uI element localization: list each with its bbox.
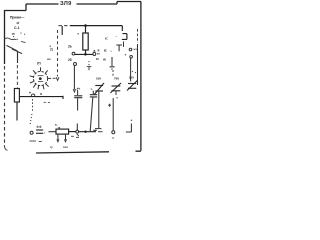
x mark right-mid	[108, 103, 111, 107]
svg-text:т: т	[98, 57, 100, 61]
switch contact 2b	[74, 63, 77, 66]
dashed lead above C2	[112, 70, 114, 76]
tube right pin dash	[53, 77, 56, 79]
stub from top bus	[61, 26, 63, 35]
R3 bottom stub right	[65, 134, 67, 140]
svg-text:гт: гт	[112, 136, 115, 140]
svg-text:ъч: ъч	[133, 47, 137, 51]
antenna arrow stroke 2	[12, 49, 22, 54]
svg-text:сі: сі	[17, 21, 20, 25]
small capacitor node mid	[87, 61, 92, 70]
junction dot on switch wire	[84, 53, 87, 56]
trimmer capacitor C3	[127, 81, 137, 91]
resistor R1	[83, 33, 88, 50]
output contact circle	[112, 131, 115, 134]
tube V1 envelope	[33, 71, 47, 85]
capacitor C5 upper lead	[77, 90, 79, 95]
svg-text:фф: фф	[37, 125, 42, 129]
wire R3 right to contact	[69, 131, 76, 133]
ganged link arrowhead	[56, 77, 59, 80]
trimmer C1 bottom tick	[93, 129, 101, 131]
bottom contact circle	[30, 131, 33, 134]
hook on wire at tap	[31, 94, 34, 96]
labels row lower right	[96, 57, 106, 62]
arrowhead on 2b wire	[73, 89, 75, 92]
antenna arrow dash	[21, 41, 26, 42]
dot left of contacts	[125, 54, 126, 55]
svg-text:о: о	[116, 96, 118, 100]
tube V1 internal electrodes	[38, 76, 44, 82]
svg-text:ю: ю	[103, 58, 106, 62]
switch contact 2v	[93, 53, 96, 56]
bracket component at bus end	[122, 34, 127, 40]
svg-text:тип: тип	[63, 145, 68, 149]
svg-text:100: 100	[96, 76, 101, 80]
svg-text:2б: 2б	[68, 58, 72, 62]
bottom-left dashes	[30, 140, 42, 143]
switch arm wire	[75, 53, 93, 55]
wire below R2	[16, 102, 18, 121]
svg-text:150: 150	[129, 76, 134, 80]
trimmer capacitor C2	[111, 83, 122, 93]
resistor R1 bottom lead	[85, 50, 87, 55]
wire C4 to R3	[49, 131, 57, 133]
dotted tap line down	[32, 99, 34, 112]
svg-text:гу: гу	[50, 145, 53, 149]
svg-text:в:: в:	[104, 49, 107, 53]
right inner wire dashed part	[137, 29, 139, 43]
antenna down-wire	[16, 52, 18, 89]
trimmer C1 lower lead	[98, 91, 100, 128]
svg-text:›: ›	[44, 131, 45, 135]
switch contact 2a	[72, 52, 75, 55]
tick below contact	[77, 134, 79, 136]
antenna arrow stroke 1	[7, 45, 18, 51]
dashed continuation of bottom wire	[98, 131, 103, 133]
capacitor plate upper right	[116, 45, 122, 51]
dots right of caption	[13, 32, 25, 34]
svg-text:юі: юі	[47, 57, 51, 61]
trimmer capacitor C1	[94, 83, 104, 95]
dot above corner	[131, 120, 132, 121]
right contact lower	[130, 56, 133, 59]
dashes under wire	[44, 101, 51, 103]
svg-text:2а: 2а	[68, 45, 72, 49]
dotted tap line lower dots	[30, 114, 33, 124]
resistor R2	[14, 89, 19, 103]
stub below drop	[123, 42, 125, 48]
svg-text:а: а	[94, 49, 96, 53]
corner wire right-mid	[126, 124, 132, 133]
svg-text:к:: к:	[105, 37, 108, 41]
caret mark above capacitor C5	[77, 88, 80, 89]
svg-text:к: к	[78, 32, 80, 36]
wire C2 stub below	[115, 91, 117, 95]
dots lower right	[132, 71, 133, 72]
capacitor C6 upper lead	[92, 91, 94, 94]
border frame left	[5, 10, 8, 150]
top bus wire dashed lead-in	[59, 25, 71, 27]
capacitor C mid right	[110, 57, 115, 70]
tube V1 pins	[30, 67, 51, 89]
dot left of tube bottom	[29, 92, 31, 94]
svg-text:С-1: С-1	[14, 26, 20, 30]
svg-text:×,: ×,	[91, 87, 94, 91]
svg-text:ЗЛ9: ЗЛ9	[60, 1, 72, 7]
wire from right contact down	[130, 58, 132, 81]
antenna dots	[13, 36, 18, 40]
wire from contact right	[79, 131, 96, 133]
resistor R1 lead top	[85, 26, 87, 33]
svg-text:Прием—: Прием—	[10, 16, 25, 20]
right contact upper	[129, 48, 132, 51]
tube V1 center dot	[39, 77, 42, 80]
dashes below bottom wire	[71, 136, 79, 137]
border frame bottom	[36, 151, 141, 153]
scattered contact labels right of switch	[94, 34, 118, 54]
svg-text:›: ›	[111, 50, 112, 54]
top bus end drop	[121, 26, 123, 31]
contact circle right of R3	[76, 130, 79, 133]
caption text block top-left	[10, 16, 25, 36]
svg-text:2∣: 2∣	[50, 48, 53, 52]
wire R2 to right	[19, 96, 63, 99]
svg-text:700: 700	[114, 76, 119, 80]
bottom capacitor C4 plates	[36, 130, 43, 133]
junction dot on bottom wire	[84, 131, 86, 133]
resistor R3 (horizontal)	[56, 129, 69, 134]
small mark top right of tube	[50, 46, 51, 47]
svg-text:я: я	[98, 49, 100, 53]
capacitor C6 plates	[90, 95, 97, 97]
capacitor C5 lower lead	[76, 98, 78, 130]
ganged dashed link line	[57, 30, 59, 77]
junction node on top bus	[84, 24, 87, 27]
arrowhead stub right	[64, 140, 66, 142]
top bus wire	[70, 25, 122, 27]
wire from 2b down	[73, 66, 75, 90]
border frame top	[4, 2, 141, 11]
svg-text:..: ..	[116, 34, 118, 38]
antenna lead-in squiggle	[5, 38, 17, 40]
right inner wire solid part	[137, 44, 139, 85]
R3 bottom stub left	[57, 134, 59, 140]
node dot under tube	[40, 93, 42, 95]
wire right-mid down	[112, 98, 114, 131]
capacitor C6 lower lead	[90, 97, 93, 131]
border frame right	[140, 2, 142, 151]
svg-text:Лт: Лт	[37, 62, 41, 66]
svg-text:с.: с.	[12, 32, 15, 36]
capacitor C5 plates	[74, 96, 82, 98]
arrowhead stub left	[57, 140, 59, 142]
